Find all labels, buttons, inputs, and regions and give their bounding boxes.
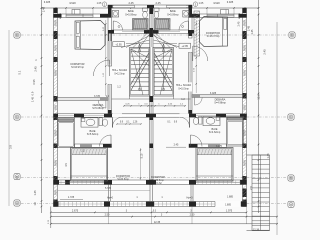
door opening C left	[113, 114, 123, 118]
right dimension line inner	[258, 0, 260, 213]
grid bubble A left	[14, 200, 20, 206]
shower cabinet left	[58, 118, 75, 148]
svg-text:1.45: 1.45	[31, 96, 35, 102]
stair lower landing line right	[153, 98, 191, 100]
left exterior wall	[54, 8, 58, 207]
bathroom bottom wall right	[153, 30, 189, 34]
window 3/120 right top	[207, 14, 234, 17]
bathtub left bath	[133, 19, 149, 31]
svg-text:0.95: 0.95	[32, 79, 36, 85]
right wall insulation hatch	[243, 19, 247, 22]
svg-text:2.45: 2.45	[238, 21, 241, 26]
window mid post left	[82, 14, 84, 17]
svg-text:1.885: 1.885	[225, 204, 231, 206]
hall label right	[175, 82, 193, 91]
svg-text:2.50: 2.50	[105, 214, 110, 217]
terrace divider center	[149, 185, 151, 202]
sink counter right bath	[203, 116, 220, 125]
svg-text:+2.95: +2.95	[115, 44, 122, 47]
svg-text:2.45: 2.45	[247, 25, 251, 31]
svg-text:1.2: 1.2	[181, 98, 185, 101]
window top bath right	[167, 5, 189, 7]
svg-text:S=5.09mp: S=5.09mp	[125, 13, 137, 16]
stair fan treads right	[154, 49, 172, 58]
svg-text:0.9: 0.9	[31, 91, 35, 95]
terrace divider right	[190, 185, 192, 202]
bed top-left bedroom	[75, 21, 105, 50]
toilet left bath	[143, 8, 148, 11]
svg-text:3.175: 3.175	[216, 145, 223, 148]
svg-text:Hp=0: Hp=0	[186, 196, 193, 199]
hall label left	[111, 67, 129, 76]
svg-text:2.50: 2.50	[190, 214, 195, 217]
top dimension line	[42, 7, 259, 9]
svg-text:1.45: 1.45	[266, 153, 270, 159]
svg-text:3/120: 3/120	[213, 1, 220, 5]
svg-text:S=20.6mp: S=20.6mp	[117, 178, 129, 181]
door arc lower bath right	[189, 117, 191, 127]
bathroom block top wall	[108, 5, 192, 8]
bed top-right bedroom	[200, 17, 228, 47]
stair break line left	[131, 59, 149, 91]
wall C row	[54, 114, 247, 117]
exterior stair bottom right	[252, 155, 270, 231]
svg-text:3.9: 3.9	[9, 145, 13, 149]
svg-text:S=4.62mp: S=4.62mp	[209, 131, 221, 134]
svg-text:B: B	[290, 176, 292, 180]
svg-text:1.05: 1.05	[199, 2, 204, 5]
wall over debara left y97	[58, 98, 109, 101]
bottom dim row 1	[51, 211, 247, 213]
toilet left bath lower	[99, 118, 102, 126]
svg-text:12.35: 12.35	[154, 221, 161, 224]
svg-text:Hp=0: Hp=0	[107, 196, 114, 199]
svg-text:HOL+ SCARA: HOL+ SCARA	[112, 69, 128, 72]
top axis circle left	[102, 2, 107, 7]
svg-text:1.725: 1.725	[68, 196, 75, 199]
grid line C	[21, 116, 289, 118]
svg-text:S=5.62mp: S=5.62mp	[87, 133, 99, 136]
bathroom bottom wall left	[112, 30, 150, 34]
svg-text:3.025: 3.025	[44, 0, 51, 4]
svg-text:S=12.0mp: S=12.0mp	[114, 73, 125, 75]
door bedroom right	[192, 46, 194, 61]
grid bubble A right	[288, 201, 294, 207]
svg-text:S=10.5mp: S=10.5mp	[178, 88, 189, 90]
interior wall left hall x108	[108, 18, 112, 67]
svg-text:16x17.5: 16x17.5	[136, 72, 138, 80]
stair winder fan left landing	[121, 40, 150, 48]
window extension lines top	[65, 8, 67, 14]
svg-text:3.725: 3.725	[94, 95, 101, 98]
interior dim line left bedroom	[105, 20, 107, 96]
grid bubble C left	[14, 114, 20, 120]
svg-text:2.45: 2.45	[263, 49, 267, 55]
svg-text:2.45: 2.45	[174, 144, 179, 147]
svg-text:HOL+ SCARA: HOL+ SCARA	[176, 84, 192, 87]
grid line D	[21, 34, 289, 36]
grid line A	[21, 203, 287, 205]
shower cabinet right	[227, 117, 244, 147]
svg-text:S=5.08mp: S=5.08mp	[92, 107, 104, 110]
bathroom block right side wall	[189, 5, 193, 18]
terrace railing row A	[54, 202, 247, 207]
stair fan treads left	[131, 49, 149, 58]
svg-text:2.45: 2.45	[34, 66, 38, 72]
svg-text:3.025: 3.025	[210, 92, 217, 95]
level box +2.95 left	[113, 42, 125, 47]
bottom extension lines	[50, 207, 52, 224]
central party wall	[150, 8, 154, 185]
window top bath left	[113, 5, 135, 7]
door arc debara left	[105, 101, 107, 109]
wall over debara right y94	[192, 95, 243, 98]
door arc debara right	[194, 98, 196, 106]
svg-text:2.675: 2.675	[72, 209, 79, 212]
top wall left section	[54, 14, 111, 18]
svg-text:+2.95: +2.95	[182, 45, 189, 48]
stair bottom dim line	[124, 105, 185, 107]
wall over bedroom left y144	[75, 144, 112, 148]
svg-text:S=5.09mp: S=5.09mp	[167, 13, 179, 16]
svg-text:3/120: 3/120	[69, 1, 76, 5]
left wall insulation hatch	[54, 19, 58, 22]
level box +2.95 right	[179, 43, 191, 48]
stair lower landing line left	[112, 98, 150, 100]
grid bubble B left	[14, 174, 20, 180]
exterior stair connection	[247, 154, 253, 156]
grid bubble D right	[289, 32, 295, 38]
terrace divider left	[108, 185, 110, 202]
svg-text:1.45: 1.45	[251, 29, 254, 34]
grid bubble C right	[288, 114, 294, 120]
wall B row	[54, 180, 247, 185]
bottom dim row 2	[51, 216, 277, 218]
stairwell left box	[130, 48, 151, 97]
svg-text:12.36: 12.36	[253, 229, 260, 232]
interior dim line right bedroom	[195, 20, 197, 93]
svg-text:3.025: 3.025	[227, 0, 234, 4]
left dimension line	[41, 0, 43, 213]
svg-text:B: B	[16, 175, 18, 179]
svg-text:1.0: 1.0	[33, 201, 37, 205]
wall over bedroom right y144	[189, 144, 227, 148]
bottom dim row 3 overall	[51, 223, 277, 225]
stair up arrow right	[163, 44, 165, 90]
C wall window lines	[58, 115, 74, 117]
door opening C right	[180, 114, 190, 118]
door arc lower bath left	[112, 117, 114, 127]
window band B left	[59, 181, 104, 183]
svg-text:S=16.37mp: S=16.37mp	[207, 35, 220, 38]
washbasin left bath	[112, 11, 119, 18]
window mid post right	[217, 14, 219, 17]
svg-text:16x17.5: 16x17.5	[165, 72, 167, 80]
right exterior wall	[243, 8, 247, 207]
svg-text:1.975: 1.975	[226, 209, 233, 212]
svg-text:1.45: 1.45	[33, 190, 37, 196]
svg-text:12.6: 12.6	[257, 94, 261, 100]
door arc C left	[112, 118, 114, 128]
door arc top bath left	[112, 21, 114, 30]
toilet right bath lower	[199, 116, 202, 124]
svg-text:2.45: 2.45	[155, 1, 161, 5]
right dimension line outer	[276, 22, 278, 235]
svg-text:S=4.98mp: S=4.98mp	[214, 102, 226, 105]
bed lower-left	[71, 148, 108, 182]
top wall right section	[190, 14, 247, 18]
svg-text:S=16.97mp: S=16.97mp	[71, 66, 84, 69]
svg-text:1.26: 1.26	[133, 122, 138, 124]
interior dim line 5.15 left unit	[140, 148, 142, 180]
bed lower-right	[196, 148, 233, 182]
door arc bath-bedroom right	[190, 135, 192, 146]
svg-text:5.15: 5.15	[140, 153, 143, 158]
washbasin right bath	[183, 11, 190, 18]
grid bubble D left	[14, 32, 20, 38]
bathroom block left side wall	[108, 5, 112, 18]
svg-text:1.2: 1.2	[117, 86, 121, 89]
closet strip right bedroom	[194, 11, 200, 56]
stair up arrow left	[139, 44, 141, 90]
svg-text:S=20.6mp: S=20.6mp	[152, 179, 164, 182]
sink counter left bath	[81, 118, 98, 127]
grid bubble B right	[288, 175, 294, 181]
svg-text:5.725: 5.725	[105, 187, 112, 190]
stairwell right box	[153, 48, 174, 97]
chimney left	[72, 10, 80, 15]
bathtub right bath	[155, 19, 171, 31]
window band B right	[196, 181, 240, 183]
stair break line right	[154, 59, 172, 91]
svg-text:5.1: 5.1	[18, 70, 22, 74]
svg-text:2.45: 2.45	[42, 6, 46, 12]
left outer dimension line	[8, 30, 10, 206]
svg-text:1.05: 1.05	[97, 2, 102, 5]
stair winder fan right landing	[154, 40, 183, 48]
top axis circle right	[193, 2, 198, 7]
svg-text:2.45: 2.45	[128, 1, 134, 5]
shower drain left	[118, 26, 120, 28]
door arc C right	[189, 118, 191, 128]
railing gap with dim 1.885	[215, 201, 241, 207]
interior wall right hall x188.5	[189, 18, 193, 39]
window 3/120 left top	[66, 14, 93, 17]
grid line B	[21, 176, 287, 178]
door arc top bath right	[187, 21, 189, 30]
svg-text:1.885: 1.885	[227, 195, 234, 198]
toilet right bath	[154, 8, 159, 11]
chimney right	[221, 10, 229, 15]
door bedroom left	[108, 60, 110, 76]
door arc bath-bedroom left	[110, 135, 112, 146]
svg-text:S=1.62: S=1.62	[154, 183, 162, 185]
shower drain right	[182, 26, 184, 28]
